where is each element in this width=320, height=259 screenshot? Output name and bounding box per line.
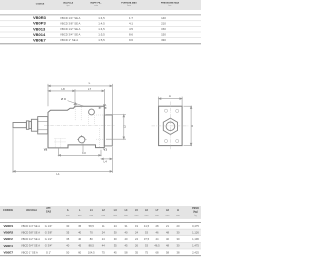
bottom table header text <box>3 207 199 213</box>
svg-text:58,5: 58,5 <box>89 224 95 228</box>
svg-text:mm: mm <box>124 215 128 217</box>
svg-text:GAS: GAS <box>46 210 52 213</box>
svg-text:40: 40 <box>125 230 128 234</box>
svg-text:9:6: 9:6 <box>129 38 133 42</box>
svg-text:48: 48 <box>166 244 169 248</box>
svg-text:G 1": G 1" <box>46 250 51 254</box>
svg-text:L3: L3 <box>82 151 86 155</box>
washer <box>26 121 29 129</box>
svg-text:150: 150 <box>161 33 166 37</box>
svg-text:46: 46 <box>156 230 159 234</box>
svg-text:24: 24 <box>102 237 105 241</box>
svg-text:44: 44 <box>156 237 159 241</box>
svg-text:VB0F2: VB0F2 <box>4 237 14 241</box>
svg-text:V1: V1 <box>103 148 107 152</box>
svg-text:H: H <box>177 209 179 212</box>
svg-text:G 1/4": G 1/4" <box>45 224 53 228</box>
svg-text:53: 53 <box>145 244 148 248</box>
svg-text:L1: L1 <box>56 172 60 176</box>
svg-text:G 3/8": G 3/8" <box>45 230 53 234</box>
svg-text:1:4,5: 1:4,5 <box>98 27 105 31</box>
svg-text:mm: mm <box>89 215 93 217</box>
svg-text:80: 80 <box>90 237 93 241</box>
svg-text:mm: mm <box>155 215 159 217</box>
dimension L8 <box>48 87 75 106</box>
svg-text:35: 35 <box>66 237 69 241</box>
svg-text:bar: bar <box>169 5 172 7</box>
svg-text:VB0F4: VB0F4 <box>4 244 14 248</box>
svg-text:VBCD 1/4" SE A: VBCD 1/4" SE A <box>21 224 40 228</box>
locknut <box>31 119 37 131</box>
svg-text:210: 210 <box>161 22 166 26</box>
svg-text:41,5: 41,5 <box>144 224 150 228</box>
hole ØD on body <box>89 109 95 115</box>
svg-text:35: 35 <box>66 230 69 234</box>
svg-text:24: 24 <box>114 224 117 228</box>
dimension L2 <box>106 115 126 140</box>
bottom table codes column <box>4 224 14 255</box>
svg-text:45: 45 <box>114 250 117 254</box>
svg-text:CODICE: CODICE <box>36 3 45 5</box>
svg-text:30: 30 <box>177 244 180 248</box>
svg-text:40: 40 <box>78 230 81 234</box>
svg-text:45: 45 <box>78 244 81 248</box>
svg-text:PORTATA MAX: PORTATA MAX <box>121 1 137 4</box>
end view centre lines <box>152 102 189 150</box>
svg-text:40: 40 <box>166 237 169 241</box>
valve body outline (side view) <box>48 106 104 148</box>
bottom table numeric grid row 2 <box>66 230 199 234</box>
svg-text:CODICE: CODICE <box>3 208 13 212</box>
svg-text:VALVOLA: VALVOLA <box>26 209 37 212</box>
svg-text:mm: mm <box>176 215 180 217</box>
svg-text:37,5: 37,5 <box>144 237 150 241</box>
svg-text:1:4,5: 1:4,5 <box>98 22 105 26</box>
svg-text:VB0R1: VB0R1 <box>4 224 14 228</box>
spacer <box>29 121 32 128</box>
svg-text:28: 28 <box>156 224 159 228</box>
svg-text:58: 58 <box>166 250 169 254</box>
svg-text:40: 40 <box>78 237 81 241</box>
svg-text:mm: mm <box>145 215 149 217</box>
svg-text:VBCD 3/4" SE A: VBCD 3/4" SE A <box>60 33 81 37</box>
svg-text:60: 60 <box>78 250 81 254</box>
mounting hole bottom-right <box>176 139 179 142</box>
svg-text:1:7: 1:7 <box>129 16 133 20</box>
bottom table rules <box>0 222 201 255</box>
mounting hole top-right <box>176 109 179 112</box>
svg-text:24: 24 <box>135 237 138 241</box>
svg-text:mm: mm <box>113 215 117 217</box>
dimension L1 <box>13 128 112 176</box>
hex plug <box>163 118 177 134</box>
centre axis line <box>44 124 115 126</box>
svg-text:mm: mm <box>78 215 82 217</box>
bottom table gas column <box>45 224 53 255</box>
svg-text:4:5: 4:5 <box>129 27 133 31</box>
bottom table numeric grid row 4 <box>66 244 199 248</box>
svg-text:8:6: 8:6 <box>129 33 133 37</box>
svg-text:20: 20 <box>177 224 180 228</box>
svg-text:150: 150 <box>161 27 166 31</box>
bottom table numeric grid row 5 <box>66 250 199 254</box>
bottom table header band <box>0 206 201 219</box>
svg-text:1,475: 1,475 <box>192 244 199 248</box>
svg-text:VBCD 1/2" SE A: VBCD 1/2" SE A <box>60 27 81 31</box>
svg-text:24: 24 <box>135 230 138 234</box>
svg-text:75: 75 <box>102 250 105 254</box>
top table description column <box>60 16 81 42</box>
page background <box>0 0 201 259</box>
adjustment screw rod <box>13 123 26 128</box>
svg-text:30: 30 <box>66 224 69 228</box>
svg-text:VBCD 1" SE A: VBCD 1" SE A <box>60 38 78 42</box>
svg-text:30: 30 <box>177 237 180 241</box>
top table header text <box>36 1 180 7</box>
svg-text:330: 330 <box>161 38 166 42</box>
pilot port circle on body face <box>77 135 86 153</box>
svg-text:21: 21 <box>166 224 169 228</box>
dimension L <box>48 81 112 115</box>
spring housing hex nut <box>38 117 48 134</box>
dimension L7 <box>75 87 104 106</box>
svg-text:53: 53 <box>145 230 148 234</box>
bottom table description column <box>21 224 40 255</box>
mounting hole top-left <box>164 109 167 112</box>
svg-text:H: H <box>190 125 194 127</box>
bottom table numeric grid row 3 <box>66 237 199 241</box>
svg-text:VBCD 3/8" SE A: VBCD 3/8" SE A <box>60 22 81 26</box>
svg-text:L4: L4 <box>104 160 108 164</box>
svg-text:19: 19 <box>135 224 138 228</box>
svg-text:V2: V2 <box>44 147 48 151</box>
svg-text:58: 58 <box>125 250 128 254</box>
bottom table alternating row tints <box>0 229 201 249</box>
svg-text:11: 11 <box>102 224 105 228</box>
svg-text:VBCD 3/8" SE A: VBCD 3/8" SE A <box>21 230 40 234</box>
svg-text:1:5,5: 1:5,5 <box>98 38 105 42</box>
svg-text:26: 26 <box>135 244 138 248</box>
svg-text:30: 30 <box>114 237 117 241</box>
svg-text:VBCD 1/4" SE A: VBCD 1/4" SE A <box>60 16 81 20</box>
svg-text:RAPP. PIL.: RAPP. PIL. <box>90 1 101 4</box>
svg-text:31: 31 <box>125 224 128 228</box>
svg-text:104,5: 104,5 <box>88 250 95 254</box>
svg-text:44: 44 <box>102 244 105 248</box>
hidden bore dashed lines <box>54 107 104 148</box>
svg-text:0,475: 0,475 <box>192 224 199 228</box>
svg-text:mm: mm <box>135 215 139 217</box>
svg-text:VBCD 3/4" SE A: VBCD 3/4" SE A <box>21 244 40 248</box>
port label V2 <box>44 147 48 151</box>
bottom table units row <box>66 215 197 217</box>
dimension L3 <box>58 149 101 157</box>
svg-text:40: 40 <box>125 237 128 241</box>
svg-text:40: 40 <box>66 244 69 248</box>
svg-text:1:4,5: 1:4,5 <box>98 16 105 20</box>
svg-text:Ø D: Ø D <box>61 97 67 101</box>
svg-text:VBCD 1/2" SE A: VBCD 1/2" SE A <box>21 237 40 241</box>
label ØD with leader <box>61 97 84 106</box>
mounting hole bottom-left <box>164 139 167 142</box>
svg-text:4:1: 4:1 <box>129 22 133 26</box>
svg-text:68: 68 <box>156 250 159 254</box>
svg-text:45: 45 <box>125 244 128 248</box>
svg-text:VB014: VB014 <box>33 32 46 37</box>
svg-text:l/min: l/min <box>127 5 131 7</box>
top table codes column <box>33 15 47 42</box>
svg-text:35: 35 <box>114 244 117 248</box>
svg-text:PRESSIONE MAX: PRESSIONE MAX <box>161 1 180 4</box>
port label V1 <box>103 148 107 152</box>
svg-text:70: 70 <box>90 230 93 234</box>
svg-text:140: 140 <box>161 16 166 20</box>
svg-text:30: 30 <box>177 230 180 234</box>
svg-text:(kg): (kg) <box>193 210 198 213</box>
svg-text:VB0E7: VB0E7 <box>33 37 46 42</box>
svg-text:L8: L8 <box>61 87 65 91</box>
top table header band <box>0 0 201 10</box>
svg-text:VB0E7: VB0E7 <box>4 251 14 255</box>
top table rules <box>0 15 201 44</box>
hex plug inner circle <box>166 122 175 131</box>
svg-text:VB0P3: VB0P3 <box>33 21 46 26</box>
dimension A <box>159 94 183 106</box>
svg-text:VB013: VB013 <box>33 26 46 31</box>
svg-text:G 3/4": G 3/4" <box>45 244 53 248</box>
svg-text:50: 50 <box>66 250 69 254</box>
svg-text:35: 35 <box>135 250 138 254</box>
dimension L4 <box>101 147 112 164</box>
dimension H <box>184 106 194 145</box>
end cap on right of body <box>104 115 112 146</box>
svg-text:48: 48 <box>166 230 169 234</box>
bottom table numeric grid row 1 <box>66 224 199 228</box>
svg-text:2,425: 2,425 <box>192 250 199 254</box>
svg-text:1:5,5: 1:5,5 <box>98 33 105 37</box>
svg-text:35: 35 <box>78 224 81 228</box>
svg-text:88,5: 88,5 <box>89 244 95 248</box>
svg-text:46,5: 46,5 <box>154 244 160 248</box>
svg-text:1,196: 1,196 <box>192 237 199 241</box>
dimension E1 <box>99 103 107 109</box>
svg-text:A: A <box>67 209 69 212</box>
svg-text:VB0R2: VB0R2 <box>4 231 14 235</box>
svg-text:L2: L2 <box>122 125 126 129</box>
svg-text:VB0R3: VB0R3 <box>33 15 47 20</box>
svg-text:38: 38 <box>177 250 180 254</box>
svg-text:G 1/2": G 1/2" <box>45 237 53 241</box>
svg-text:VBCD 1" SE A: VBCD 1" SE A <box>21 250 38 254</box>
svg-text:30: 30 <box>114 230 117 234</box>
svg-text:75: 75 <box>145 250 148 254</box>
svg-text:A: A <box>169 94 171 98</box>
svg-text:24: 24 <box>102 230 105 234</box>
svg-text:L7: L7 <box>88 87 92 91</box>
svg-text:mm: mm <box>66 215 70 217</box>
top table numeric columns <box>98 16 166 42</box>
svg-text:mm: mm <box>166 215 170 217</box>
end view body rectangle <box>159 106 183 145</box>
svg-text:VALVOLA: VALVOLA <box>63 1 74 4</box>
svg-text:mm: mm <box>101 215 105 217</box>
svg-text:1,126: 1,126 <box>192 230 199 234</box>
